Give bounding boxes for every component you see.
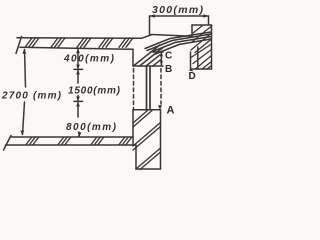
wall hatch line 4 <box>191 44 212 58</box>
hanging beam bottom line (B level) <box>133 65 163 67</box>
svg-text:C: C <box>165 51 172 62</box>
300 dim line <box>150 15 209 17</box>
D marker arrow <box>189 69 194 72</box>
hanging beam left edge <box>132 49 134 66</box>
wall hatch line 1 <box>193 26 203 34</box>
wall inner vertical edge <box>197 47 199 69</box>
floor hatch group 3 <box>91 137 104 144</box>
window left dashed line <box>133 69 135 110</box>
wall hatch line 2 <box>193 27 212 42</box>
C-B connector line <box>160 52 162 66</box>
1500 bottom arrow <box>76 97 80 101</box>
window right dashed line <box>160 69 162 105</box>
C level line <box>153 51 163 53</box>
ceiling hatch group 2 <box>51 38 65 47</box>
beam face hatch line 3 <box>146 55 160 66</box>
svg-text:D: D <box>189 71 196 82</box>
2700 top arrow <box>22 49 26 54</box>
tick between 1500 and 800 <box>74 100 83 102</box>
ceiling hatch group 1 <box>25 38 39 47</box>
spandrel hatch pair 1 <box>133 110 152 127</box>
beam face hatch line 2 <box>140 48 164 67</box>
400 bottom arrow <box>76 65 80 69</box>
400 top arrow <box>76 49 80 54</box>
wall parapet left edge <box>191 25 193 37</box>
spandrel hatch pair 3 <box>136 148 161 170</box>
sill top line <box>133 109 161 111</box>
300 dim right extension <box>208 16 210 25</box>
beam face hatch line 1 <box>134 45 160 66</box>
spandrel hatch pair 2 <box>133 123 161 151</box>
svg-text:A: A <box>167 105 175 117</box>
slab top oblique to depth line <box>142 35 153 39</box>
1500 top arrow <box>76 70 80 74</box>
wall bottom edge <box>191 68 212 70</box>
spandrel block right edge <box>160 110 162 169</box>
ceiling hatch group 4 <box>99 38 113 47</box>
2700 dim line upper <box>25 50 26 88</box>
wall right edge <box>211 25 213 69</box>
ceiling hatch group 3 <box>77 38 91 47</box>
beam depth band line 4 <box>154 39 211 55</box>
B marker arrow <box>160 61 163 65</box>
depth top line to wall <box>152 35 192 37</box>
800 dim segment upper <box>77 103 79 118</box>
1500 dim segment lower <box>77 96 79 101</box>
svg-text:1500(mm): 1500(mm) <box>68 86 121 97</box>
2700 bottom arrow <box>20 131 24 136</box>
wall parapet top edge <box>192 24 212 26</box>
wall hatch line 5 <box>193 50 212 64</box>
300 right arrow <box>203 14 208 17</box>
ceiling hatch group 5 <box>119 38 133 47</box>
300 left arrow <box>150 14 155 17</box>
svg-text:B: B <box>165 64 172 75</box>
svg-text:300(mm): 300(mm) <box>152 4 204 16</box>
floor hatch group 2 <box>58 137 71 144</box>
ceiling slab left slant edge <box>16 37 22 54</box>
ceiling slab bottom line <box>20 47 133 49</box>
800 bottom arrow <box>78 132 82 136</box>
floor slab left slant edge <box>4 136 12 151</box>
beam depth band line 2 <box>147 34 211 51</box>
svg-text:800(mm): 800(mm) <box>66 122 117 133</box>
floor hatch group 4 <box>119 137 132 144</box>
beam depth band line 3 <box>150 37 211 53</box>
ceiling slab top line <box>17 37 142 40</box>
window glass double line 1 <box>146 67 148 110</box>
300 dim left extension <box>149 16 151 35</box>
C marker arrow <box>160 52 163 56</box>
1500 dim segment upper <box>77 70 79 83</box>
floor slab top line <box>11 136 133 138</box>
window glass double line 2 <box>149 67 151 110</box>
A marker arrow <box>158 105 162 109</box>
spandrel block lower left edge <box>135 145 137 169</box>
wall hatch line 3b <box>195 39 212 53</box>
spandrel block left edge <box>132 110 134 145</box>
wall hatch line 3 <box>191 33 212 50</box>
400 dim segment <box>77 49 79 69</box>
svg-text:2700 (mm): 2700 (mm) <box>1 91 62 102</box>
beam depth band line 1 <box>145 32 211 49</box>
floor hatch group 1 <box>26 137 39 144</box>
beam face hatch line 4 <box>153 60 161 67</box>
svg-text:400(mm): 400(mm) <box>63 54 115 65</box>
tick between 400 and 1500 <box>74 68 83 70</box>
800 top arrow <box>76 102 80 106</box>
floor slab bottom line <box>6 144 137 146</box>
spandrel block bottom edge <box>136 168 161 170</box>
800 dim segment lower <box>78 132 80 137</box>
wall lower left edge <box>190 52 192 69</box>
wall lower hatch <box>196 56 212 70</box>
2700 dim line lower <box>23 102 25 135</box>
